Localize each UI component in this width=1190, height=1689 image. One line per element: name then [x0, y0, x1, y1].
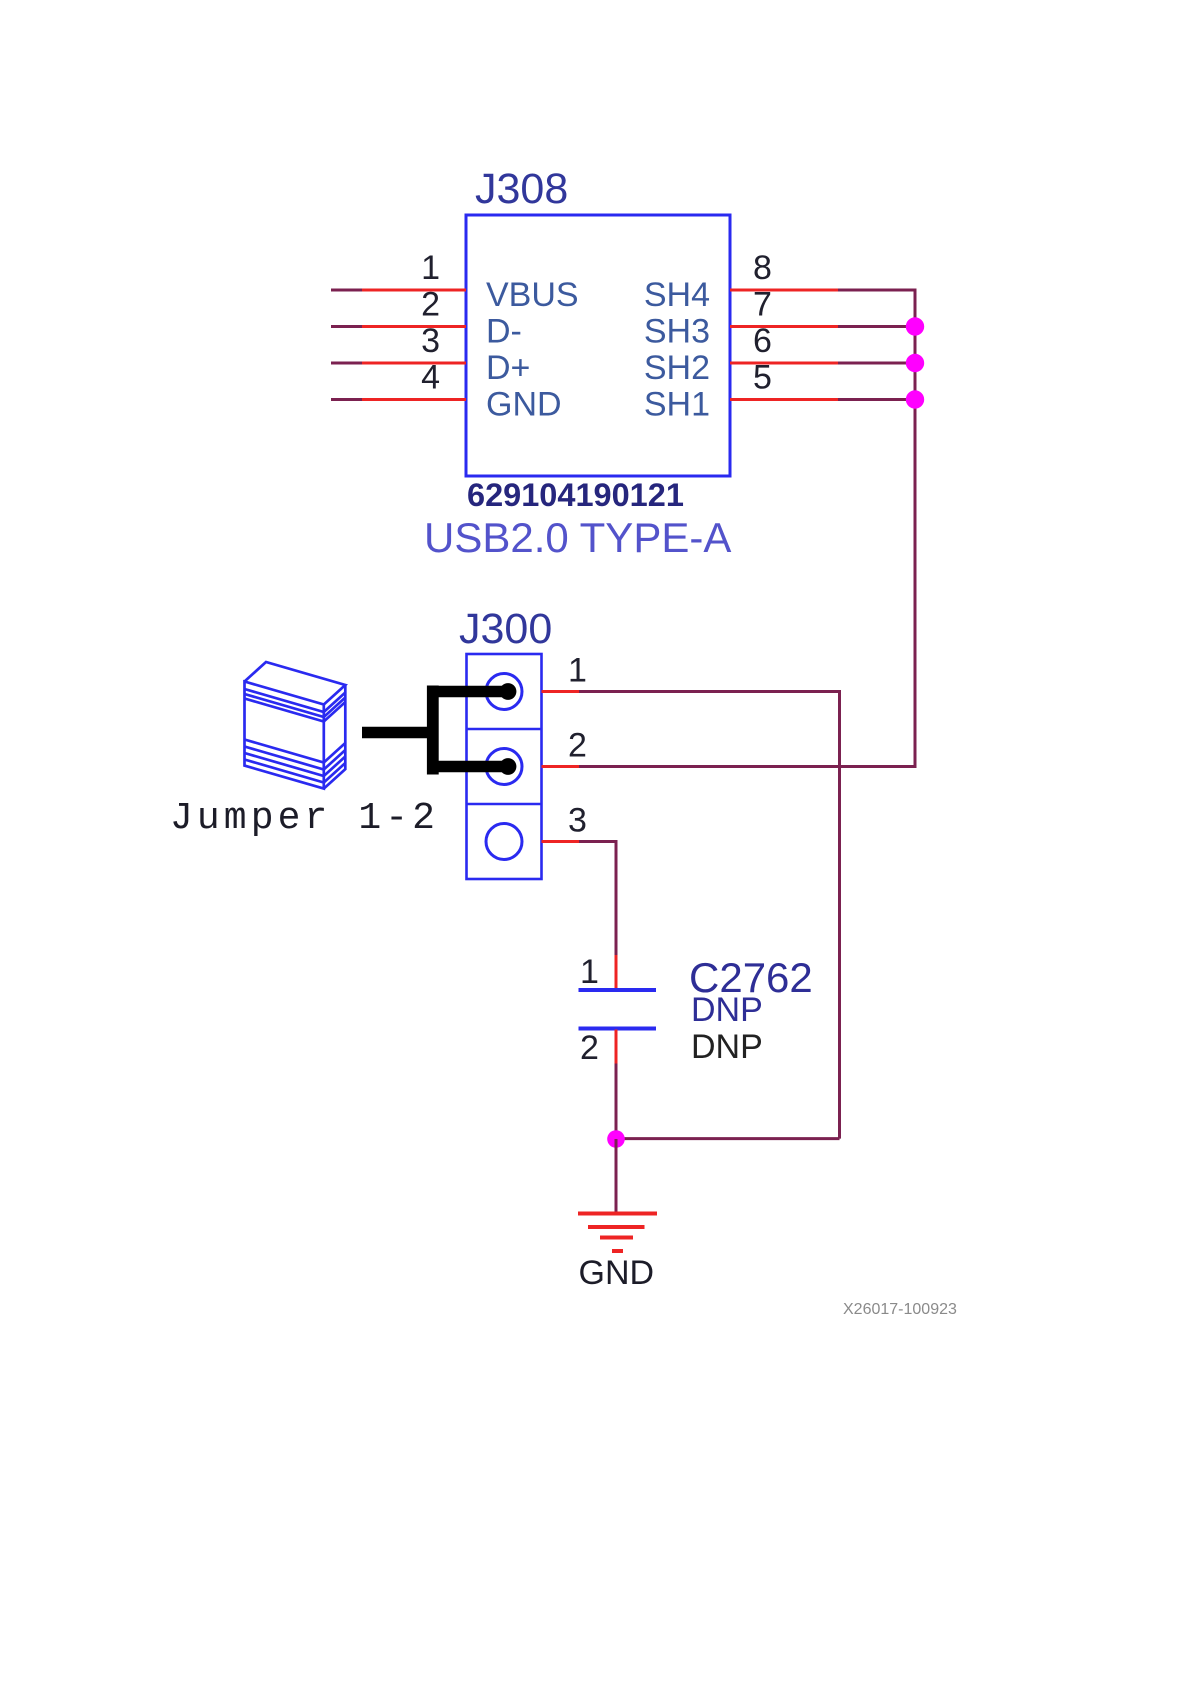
- J300 pin 1 circle: [486, 674, 522, 710]
- svg-text:1: 1: [568, 652, 587, 690]
- J308 pin 7 lead: [730, 325, 838, 328]
- wire stub into J308 pin 3: [331, 362, 362, 365]
- svg-text:1: 1: [421, 249, 440, 287]
- J308 pin 4 lead: [362, 398, 466, 401]
- svg-text:X26017-100923: X26017-100923: [843, 1301, 957, 1318]
- capacitor C2762 bottom plate: [579, 1027, 657, 1031]
- vertical wire from J300 pin 3 down to capacitor: [615, 842, 618, 957]
- J300 pin 3 circle: [486, 824, 522, 860]
- jumper shunt contact dot pin 2: [500, 758, 517, 775]
- wire from pin 6 to shield net: [838, 362, 915, 365]
- wire junction horizontal segment: [616, 1137, 840, 1140]
- connector J300 body: [467, 654, 542, 879]
- J300 pin number 2: [568, 727, 587, 765]
- J308 pin name SH3: [644, 313, 710, 351]
- document number X26017-100923: [843, 1301, 957, 1318]
- capacitor C2762 pin 2 lead: [615, 1030, 618, 1064]
- wire stub into J308 pin 1: [331, 289, 362, 292]
- svg-text:1: 1: [580, 953, 599, 991]
- junction dot at ground node: [607, 1130, 625, 1148]
- capacitor C2762 top plate: [579, 988, 657, 992]
- J308 pin number 8: [753, 249, 772, 287]
- J308 pin number 6: [753, 322, 772, 360]
- svg-text:D-: D-: [486, 313, 522, 351]
- J308 pin number 3: [421, 322, 440, 360]
- J308 pin number 5: [753, 359, 772, 397]
- J300 pin number 3: [568, 802, 587, 840]
- J308 pin 5 lead: [730, 398, 838, 401]
- connector J308 body: [466, 215, 730, 476]
- J300 pin 1 lead: [542, 690, 580, 693]
- svg-text:D+: D+: [486, 349, 530, 387]
- junction on pin 6 wire: [906, 354, 924, 372]
- wire from pin 5 to shield net: [838, 398, 915, 401]
- svg-text:SH3: SH3: [644, 313, 710, 351]
- svg-text:2: 2: [568, 727, 587, 765]
- svg-text:SH4: SH4: [644, 276, 710, 314]
- vertical wire from J300 pin 1 down to junction: [838, 692, 841, 1139]
- connector J308 reference label: [475, 165, 568, 213]
- svg-text:J300: J300: [459, 605, 552, 653]
- J308 part number value: [467, 477, 684, 513]
- J308 pin number 1: [421, 249, 440, 287]
- J300 pin 3 lead: [542, 840, 580, 843]
- J308 pin 1 lead: [362, 289, 466, 292]
- wire from capacitor to junction: [615, 1064, 618, 1139]
- J300 pin 2 lead: [542, 765, 580, 768]
- jumper annotation text: [170, 797, 439, 840]
- J308 pin number 4: [421, 359, 440, 397]
- jumper shunt symbol (black fork): [362, 686, 509, 775]
- svg-text:2: 2: [580, 1029, 599, 1067]
- J308 pin name VBUS: [486, 276, 579, 314]
- junction on pin 7 wire: [906, 317, 924, 335]
- capacitor C2762 reference label: [689, 954, 813, 1001]
- capacitor value DNP: [691, 991, 763, 1029]
- J308 pin name SH2: [644, 349, 710, 387]
- wire stub into J308 pin 2: [331, 325, 362, 328]
- shield net vertical wire: [914, 290, 917, 767]
- svg-text:GND: GND: [579, 1254, 655, 1292]
- wire from J300 pin 2 to shield net: [579, 765, 917, 768]
- J300 pin 2 circle: [486, 749, 522, 785]
- svg-text:DNP: DNP: [691, 1028, 763, 1066]
- connector J300 reference label: [459, 605, 552, 653]
- svg-text:DNP: DNP: [691, 991, 763, 1029]
- J308 pin number 7: [753, 286, 772, 324]
- wire from pin 8 to shield net: [838, 289, 917, 292]
- J308 pin name D-: [486, 313, 522, 351]
- svg-text:SH2: SH2: [644, 349, 710, 387]
- capacitor pin number 2: [580, 1029, 599, 1067]
- svg-text:GND: GND: [486, 386, 562, 424]
- svg-text:629104190121: 629104190121: [467, 477, 684, 513]
- junction on pin 5 wire: [906, 390, 924, 408]
- wire from J300 pin 3: [579, 840, 618, 843]
- J308 pin 6 lead: [730, 362, 838, 365]
- svg-text:J308: J308: [475, 165, 568, 213]
- J308 pin number 2: [421, 286, 440, 324]
- J308 pin name GND: [486, 386, 562, 424]
- J308 pin name SH4: [644, 276, 710, 314]
- J300 pin number 1: [568, 652, 587, 690]
- wire stub into J308 pin 4: [331, 398, 362, 401]
- J308 pin 2 lead: [362, 325, 466, 328]
- svg-text:Jumper 1-2: Jumper 1-2: [170, 797, 439, 840]
- wire from pin 7 to shield net: [838, 325, 915, 328]
- capacitor C2762 pin 1 lead: [615, 955, 618, 989]
- J308 pin 3 lead: [362, 362, 466, 365]
- svg-text:VBUS: VBUS: [486, 276, 579, 314]
- jumper cap 3D block: [245, 662, 346, 789]
- J308 description USB2.0 TYPE-A: [424, 514, 731, 561]
- capacitor pin number 1: [580, 953, 599, 991]
- wire from J300 pin 1: [579, 690, 841, 693]
- ground net label GND: [579, 1254, 655, 1292]
- svg-text:USB2.0 TYPE-A: USB2.0 TYPE-A: [424, 514, 731, 561]
- J308 pin name SH1: [644, 386, 710, 424]
- svg-text:3: 3: [568, 802, 587, 840]
- wire from junction to ground symbol: [615, 1139, 618, 1212]
- capacitor property DNP: [691, 1028, 763, 1066]
- jumper shunt contact dot pin 1: [500, 683, 517, 700]
- J308 pin 8 lead: [730, 289, 838, 292]
- ground symbol: [578, 1214, 657, 1252]
- svg-text:8: 8: [753, 249, 772, 287]
- J308 pin name D+: [486, 349, 530, 387]
- svg-text:SH1: SH1: [644, 386, 710, 424]
